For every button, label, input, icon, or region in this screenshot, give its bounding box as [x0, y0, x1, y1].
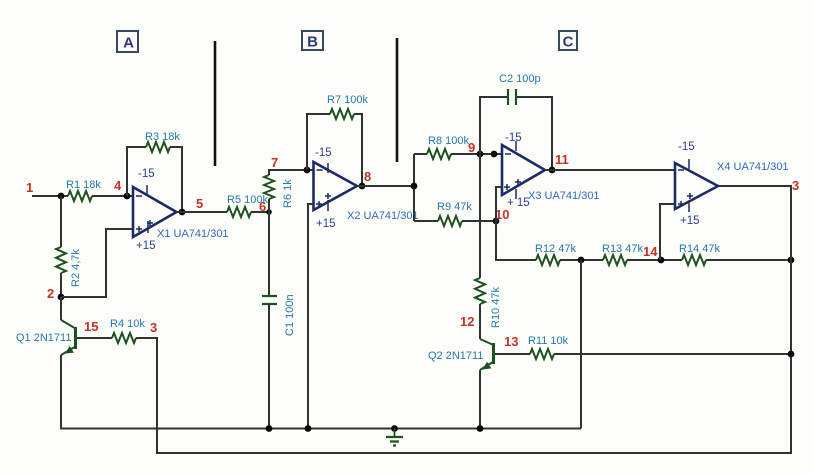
resistor R3 [146, 142, 170, 152]
svg-text:A: A [123, 35, 134, 52]
svg-text:3: 3 [150, 320, 157, 335]
junction R14 output net [788, 257, 795, 264]
svg-text:R3 18k: R3 18k [145, 131, 180, 143]
capacitor C2 feedback leads [480, 97, 552, 170]
resistor R2 [56, 247, 66, 273]
resistor R14 [682, 255, 706, 265]
X1 output junction [179, 209, 186, 216]
svg-text:X1 UA741/301: X1 UA741/301 [157, 228, 229, 240]
resistor R5 [227, 207, 251, 217]
wire R2 to node 2 [60, 273, 62, 297]
capacitor C2 [508, 89, 516, 105]
svg-text:1: 1 [26, 180, 33, 195]
wire Q2 base to R11 [495, 353, 530, 355]
svg-text:10: 10 [495, 207, 509, 222]
svg-text:X4 UA741/301: X4 UA741/301 [717, 161, 789, 173]
wire node4 to R3 feedback [127, 147, 146, 196]
node 9 second junction [491, 151, 498, 158]
svg-text:C2 100p: C2 100p [499, 73, 541, 85]
svg-text:R2 4,7k: R2 4,7k [70, 249, 82, 287]
wire R14 to output net [706, 259, 791, 261]
resistor R1 [68, 191, 92, 201]
capacitor C1 [262, 296, 277, 304]
node 7 junction [304, 167, 311, 174]
wire X2 noninverting to rail [308, 204, 314, 429]
wire R3 to X1 output [170, 147, 182, 212]
svg-text:-15: -15 [138, 168, 155, 180]
svg-text:11: 11 [555, 152, 569, 167]
svg-text:X3 UA741/301: X3 UA741/301 [528, 190, 600, 202]
wire X4 noninverting to node 14 [660, 204, 675, 260]
wire R11 to output net [554, 353, 791, 355]
junction C1 rail [266, 425, 273, 432]
wire R7 feedback loop [307, 114, 362, 186]
node 10 [493, 218, 500, 225]
svg-text:R7 100k: R7 100k [327, 94, 368, 106]
section label C [559, 31, 577, 51]
svg-text:6: 6 [259, 199, 266, 214]
svg-text:4: 4 [114, 178, 122, 193]
wire node8 to R8 [414, 153, 427, 155]
node 2 [58, 294, 65, 301]
op-amp X3 [502, 141, 545, 199]
svg-text:R6 1k: R6 1k [282, 179, 294, 208]
resistor R7 [330, 109, 354, 119]
capacitor C1 top lead [268, 212, 270, 296]
transistor Q1 [61, 320, 76, 355]
svg-text:13: 13 [504, 334, 518, 349]
junction R11 output net [788, 351, 795, 358]
separator line B/C [396, 38, 399, 162]
svg-text:B: B [307, 34, 318, 51]
wire X3 noninverting input [496, 187, 536, 260]
junction X2 noninverting rail [305, 425, 312, 432]
resistor R9 [438, 216, 462, 226]
wire R5 to node 6 [251, 211, 269, 213]
wire node6 to R6 [268, 199, 270, 212]
svg-text:-15: -15 [678, 141, 695, 153]
node 1 [58, 193, 65, 200]
node 6 [266, 209, 272, 215]
svg-text:R10 47k: R10 47k [490, 287, 502, 328]
wire node9 to R10 [479, 154, 481, 278]
wire R12 to R13 [560, 259, 603, 261]
svg-text:R12 47k: R12 47k [535, 243, 576, 255]
svg-text:15: 15 [84, 319, 98, 334]
wire node 2 to X1 noninverting input [61, 229, 133, 297]
wire node1 to R2 [60, 196, 62, 247]
resistor R10 [475, 278, 485, 304]
wire X3 output to X4 inverting input [545, 169, 675, 171]
wire input node 1 [32, 195, 68, 197]
svg-text:14: 14 [643, 244, 658, 259]
X2 output junction [359, 183, 366, 190]
svg-text:+15: +15 [680, 215, 700, 227]
svg-text:+ 15: + 15 [507, 197, 530, 209]
svg-text:R4 10k: R4 10k [110, 318, 145, 330]
svg-text:R9 47k: R9 47k [437, 201, 472, 213]
svg-text:R14 47k: R14 47k [679, 243, 720, 255]
wire Q2 emitter to rail [479, 370, 481, 429]
svg-text:R8 100k: R8 100k [428, 135, 469, 147]
wire Q1 base to R4 [77, 337, 112, 339]
wire R6 to node 7 [269, 170, 314, 175]
svg-text:C1 100n: C1 100n [284, 294, 296, 336]
wire R9 to node 10 [462, 220, 496, 222]
wire X2 output to node 8 split [357, 154, 414, 221]
wire X1 output to R5 [177, 211, 228, 213]
wire R1 to X1 inverting input [92, 195, 133, 197]
node 14 [658, 257, 665, 264]
node 4 [124, 193, 131, 200]
op-amp X1 [133, 185, 177, 237]
svg-text:12: 12 [460, 314, 474, 329]
wire R10 to Q2 collector [479, 304, 481, 339]
wire junction to ground rail [580, 260, 582, 429]
svg-text:X2 UA741/301: X2 UA741/301 [347, 210, 419, 222]
svg-text:+15: +15 [316, 218, 336, 230]
wire R13 to node 14 [627, 259, 682, 261]
svg-text:2: 2 [47, 286, 54, 301]
svg-text:Q1 2N1711: Q1 2N1711 [16, 332, 71, 344]
svg-text:+15: +15 [136, 240, 156, 252]
svg-text:3: 3 [792, 178, 799, 193]
transistor Q2 [480, 339, 494, 370]
svg-text:7: 7 [271, 155, 278, 170]
junction Q2 emitter rail [477, 425, 484, 432]
svg-text:-15: -15 [315, 147, 332, 159]
svg-text:-15: -15 [505, 132, 522, 144]
op-amp X2 [314, 162, 358, 211]
svg-text:9: 9 [468, 140, 475, 155]
svg-text:5: 5 [196, 196, 203, 211]
R12/R13 ground junction [578, 257, 585, 264]
wire node2 to Q1 collector [60, 297, 62, 320]
op-amp X4 [675, 159, 718, 212]
resistor R8 [427, 149, 451, 159]
X3 output junction node 11 [549, 167, 556, 174]
resistor R4 [112, 333, 136, 343]
svg-text:R13 47k: R13 47k [602, 243, 643, 255]
wire R8 to X3 inverting input [451, 153, 502, 155]
resistor R12 [536, 255, 560, 265]
separator line A/B [214, 41, 217, 166]
resistor R11 [530, 349, 554, 359]
wire X4 output net 3 loop [136, 186, 791, 453]
node 8 [411, 183, 418, 190]
node 9 [477, 151, 484, 158]
section label B [302, 31, 323, 51]
svg-text:Q2 2N1711: Q2 2N1711 [428, 350, 483, 362]
svg-text:C: C [563, 34, 574, 51]
wire node8 to R9 [414, 220, 438, 222]
svg-text:8: 8 [364, 169, 371, 184]
resistor R13 [603, 255, 627, 265]
svg-text:R11 10k: R11 10k [528, 335, 569, 347]
wire Q1 emitter to ground rail [61, 355, 581, 429]
section label A [117, 31, 138, 52]
ground [386, 425, 403, 445]
svg-text:R1 18k: R1 18k [66, 179, 101, 191]
wire C1 to ground rail [268, 304, 270, 429]
resistor R6 [264, 175, 274, 199]
